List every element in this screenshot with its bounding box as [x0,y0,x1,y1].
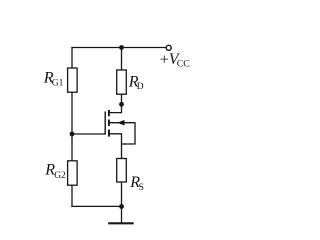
node dot at VCC rail [119,45,124,50]
resistor RG1 [68,68,78,92]
node dot at gate [70,132,75,137]
wire RS bottom to ground [121,182,123,223]
label RG2 [44,162,66,181]
svg-text:CC: CC [177,59,190,70]
channel bar source segment [108,130,110,137]
resistor RD [117,70,127,94]
label RS [129,174,144,193]
wire left column lower (RG2 bottom to bottom rail) [71,185,73,206]
substrate arrow [117,120,124,126]
wire left column middle (RG1 bottom to RG2 top) [71,92,73,161]
resistor RS [117,159,127,183]
node dot at bottom rail / source net [119,204,124,209]
svg-text:+: + [160,52,169,69]
terminal +VCC [166,45,171,50]
wire gate lead [72,133,105,135]
channel bar drain segment [108,110,110,116]
wire left column upper [71,48,73,69]
gate bar [104,112,106,135]
ground [108,222,134,224]
svg-text:D: D [137,82,144,92]
svg-text:S: S [139,183,144,193]
node dot at drain [119,102,124,107]
wire top rail [72,47,166,49]
svg-text:G1: G1 [52,79,64,89]
label +VCC [160,51,190,70]
wire RD bottom to drain [110,94,122,113]
label RG1 [43,69,64,88]
label RD [128,74,144,92]
wire VCC branch down to RD [121,48,123,71]
wire substrate loop to source [110,123,135,144]
transistor V (MOSFET) [105,110,124,137]
resistor RG2 [68,161,78,185]
svg-text:G2: G2 [54,171,66,181]
channel bar substrate segment [108,120,110,127]
wire source lead down to RS [110,134,122,159]
wire bottom rail [72,205,122,207]
